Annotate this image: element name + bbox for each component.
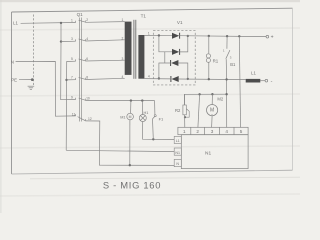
svg-text:N1: N1 [205, 150, 211, 156]
wire pin 6 to transformer tap 3 [85, 59, 124, 62]
fan M1 circle [127, 113, 134, 120]
node junction R1 top [208, 35, 210, 37]
wire to terminal 2 [198, 94, 200, 127]
wire N to switch pin 11 [16, 61, 76, 116]
terminal plus circle [266, 35, 269, 38]
motor M2 wire top [211, 94, 213, 104]
potentiometer R2 wire top [184, 94, 186, 105]
wire D3 left side down to AC2 [159, 63, 171, 79]
svg-text:9: 9 [71, 95, 73, 99]
potentiometer R2 body [183, 105, 186, 115]
svg-text:7: 7 [71, 76, 73, 80]
transformer T1 primary winding bar [125, 22, 132, 75]
node junction AC1 [158, 34, 160, 36]
switch Q1 shaft rails [79, 18, 81, 122]
wire D4 to minus rail [179, 78, 246, 81]
control board N1 box [181, 135, 248, 169]
svg-text:N: N [11, 59, 14, 64]
svg-text:F1: F1 [159, 116, 164, 121]
svg-text:M2: M2 [217, 97, 223, 102]
page top edge shadow [0, 0, 300, 2]
diode D4 [171, 76, 179, 82]
node junction D1 D2 cathodes [187, 35, 189, 37]
wire L1 phase to switch pin 1 [21, 22, 76, 25]
wire pin 10 to fan lamp fuse rail [85, 99, 154, 101]
inductor L1 bar [246, 79, 261, 83]
page left edge shadow [0, 0, 2, 213]
potentiometer R2 wiper link [185, 109, 189, 117]
faint paper crease below frame [30, 177, 300, 179]
transformer T1 core lines [134, 20, 136, 79]
svg-text:T1: T1 [141, 13, 147, 18]
node junction R1 bottom [208, 78, 210, 80]
svg-text:11: 11 [72, 112, 76, 116]
node junction feed rail right [225, 93, 227, 95]
svg-text:3: 3 [211, 129, 214, 134]
node junction plus branch [238, 35, 240, 37]
wire common bus to pin 5 [66, 61, 75, 150]
diode D3 [171, 60, 179, 66]
node junction L1 jumper top [60, 22, 62, 24]
wire pin 4 to transformer tap 2 [85, 40, 124, 41]
svg-text:S - MIG 160: S - MIG 160 [103, 179, 161, 190]
contact B1 wire top [226, 36, 228, 49]
potentiometer R2 wire bottom to terminal 1 [184, 115, 186, 128]
svg-text:5: 5 [71, 57, 73, 61]
svg-text:3: 3 [121, 57, 123, 61]
node junction D4 row [187, 78, 189, 80]
wire pin 2 to transformer tap 1 [85, 21, 124, 24]
svg-text:L1: L1 [13, 21, 18, 26]
terminal minus circle [265, 79, 268, 82]
svg-text:4: 4 [148, 75, 150, 79]
svg-text:M1: M1 [120, 116, 125, 120]
node junction R2 wiper [184, 116, 186, 118]
svg-text:N: N [176, 162, 179, 166]
switch Q1 contact blades and pins [76, 20, 86, 121]
resistor R1 loops [206, 54, 210, 63]
contact B1 wire bottom to terminal 4 [225, 59, 228, 128]
svg-text:1: 1 [183, 129, 186, 134]
svg-text:R1: R1 [213, 58, 219, 63]
paper scan streaks [0, 28, 300, 196]
node junction AC2 [158, 77, 160, 79]
thermal switch F1 wire top [154, 101, 156, 115]
wire N1 row to control board [66, 150, 174, 151]
fan M1 wire top [130, 101, 132, 114]
svg-text:4: 4 [225, 129, 228, 134]
schematic border frame [12, 8, 293, 174]
fan M1 wire bottom [129, 120, 131, 165]
svg-text:4: 4 [121, 75, 123, 79]
svg-text:2: 2 [121, 36, 123, 40]
diode D1 [172, 33, 180, 39]
svg-text:M: M [129, 115, 132, 119]
wire to switch pin 3 [61, 40, 76, 42]
svg-text:L1: L1 [251, 71, 256, 76]
svg-text:1: 1 [71, 18, 73, 22]
wire secondary bottom tap to D4 [144, 78, 171, 80]
resistor R1 wire top [208, 36, 210, 53]
wire jumper down to row 9 [61, 42, 76, 100]
wire motor feed rail [185, 94, 227, 105]
node junction terminal 2 branch [198, 93, 200, 95]
ground symbol [28, 86, 35, 89]
contact B1 blade [226, 50, 230, 59]
thermal switch F1 wire bottom [152, 119, 155, 139]
chassis dashed line [33, 15, 35, 86]
svg-text:8: 8 [86, 75, 88, 79]
wire bus to pin 7 [67, 79, 76, 81]
wire pin 8 to transformer tap 4 [85, 78, 124, 79]
node junction M2 top [211, 93, 213, 95]
transformer T1 primary tap labels [121, 18, 123, 79]
wire PE to chassis [19, 79, 32, 81]
node junction bus row 7 [65, 79, 67, 81]
svg-text:Q1: Q1 [77, 12, 84, 17]
motor M2 circle [207, 105, 218, 116]
wire pin 12 down to N row [85, 121, 174, 165]
board terminal cell L1 [174, 136, 181, 143]
svg-text:2: 2 [196, 129, 199, 134]
node junction B1 top [226, 35, 228, 37]
thermal switch F1 blade [153, 117, 155, 119]
node junction M1 on N row [129, 164, 131, 166]
wire L1 to minus terminal [260, 80, 265, 82]
wire link D2 anode to D3 row [164, 52, 166, 63]
wire AC1 down to D2 anode [159, 36, 172, 52]
diode D2 [172, 49, 180, 55]
svg-text:-: - [271, 78, 273, 84]
svg-text:H1: H1 [144, 111, 149, 115]
wire D1 cathode plus rail [180, 35, 267, 38]
svg-text:N1: N1 [175, 151, 180, 155]
svg-text:5: 5 [240, 129, 243, 134]
svg-text:PE: PE [11, 77, 17, 82]
svg-text:L1: L1 [176, 139, 180, 143]
svg-text:10: 10 [86, 97, 90, 101]
wire secondary top tap to diode D1 [144, 35, 172, 37]
rectifier V1 dashed box [153, 31, 195, 85]
lamp H1 wire top [141, 101, 143, 115]
board terminal cell N1 [174, 148, 181, 155]
svg-text:B1: B1 [230, 62, 236, 67]
motor M2 wire bottom to terminal 3 [211, 116, 214, 128]
svg-text:R2: R2 [175, 108, 181, 113]
node junction fan M1 top [130, 99, 132, 101]
svg-text:4: 4 [86, 37, 88, 41]
transformer T1 secondary winding bar [138, 35, 144, 79]
svg-text:6: 6 [86, 57, 88, 61]
thermal switch F1 terminal circle [154, 115, 156, 117]
node junction jumper row2 [60, 40, 62, 42]
resistor R1 wire bottom [208, 62, 210, 79]
terminal strip of board N1 [178, 127, 248, 134]
svg-text:1: 1 [148, 31, 150, 35]
wire plus branch to terminal 5 [239, 36, 240, 127]
lamp H1 circle with cross [139, 115, 146, 122]
svg-text:2: 2 [86, 18, 88, 22]
wire D3 right side down to D4 row [178, 63, 187, 79]
terminal strip numbers [183, 129, 243, 134]
node junction PE chassis [31, 78, 34, 81]
svg-text:3: 3 [71, 37, 73, 41]
lamp H1 wire bottom to L1 row [143, 122, 175, 140]
node junction lamp H1 top [141, 99, 143, 101]
node junction F1 on L1 row [152, 138, 154, 140]
board terminal cell N [174, 159, 181, 166]
wire D2 cathode up to plus rail [180, 36, 188, 52]
switch Q1 pin number labels [71, 18, 92, 121]
svg-text:V1: V1 [177, 20, 183, 25]
svg-text:+: + [271, 35, 274, 41]
wire jumper pins 1-3 [60, 23, 62, 42]
node junction B1 minus rail [225, 78, 227, 80]
svg-text:1: 1 [121, 18, 123, 22]
